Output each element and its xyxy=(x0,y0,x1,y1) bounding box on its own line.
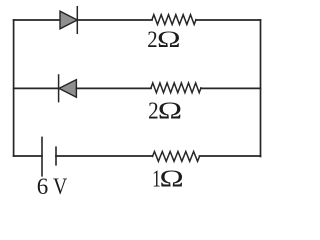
wire middle branch right segment xyxy=(201,87,261,89)
svg-text:Ω: Ω xyxy=(157,26,181,52)
diode D1 (top, pointing right) xyxy=(60,11,77,29)
wire bottom branch middle segment xyxy=(56,155,153,157)
diode D1 cathode bar xyxy=(76,7,78,34)
wire middle branch left segment xyxy=(14,87,59,89)
label R3 value 1Ω xyxy=(152,165,183,193)
resistor R2 2Ω zigzag (middle) xyxy=(151,83,201,93)
svg-text:Ω: Ω xyxy=(158,97,182,124)
battery BT1 short plate xyxy=(55,147,57,165)
wire bottom branch left segment xyxy=(14,155,42,157)
diode D2 cathode bar (middle, pointing left) xyxy=(58,75,60,102)
resistor R1 2Ω zigzag (top) xyxy=(152,15,196,25)
wire middle branch middle segment xyxy=(76,87,151,89)
resistor R3 1Ω zigzag (bottom) xyxy=(153,152,200,162)
svg-text:Ω: Ω xyxy=(159,166,183,193)
diode D2 (middle, pointing left) xyxy=(59,80,76,98)
svg-text:V: V xyxy=(53,173,68,199)
label battery value 6 V xyxy=(37,173,68,199)
wire left vertical bus xyxy=(13,20,15,156)
wire top branch right segment xyxy=(196,19,261,21)
wire bottom branch right segment xyxy=(200,155,261,157)
battery BT1 long plate xyxy=(41,137,43,175)
wire right vertical bus xyxy=(260,20,262,157)
label R1 value 2Ω xyxy=(147,26,180,52)
wire top branch middle segment xyxy=(77,19,152,21)
label R2 value 2Ω xyxy=(148,97,182,124)
svg-text:6: 6 xyxy=(37,174,49,199)
wire top branch left segment xyxy=(14,19,60,21)
